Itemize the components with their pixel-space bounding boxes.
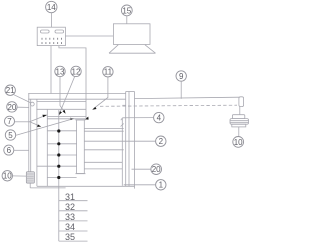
weight mid block	[230, 119, 249, 125]
svg-text:32: 32	[65, 202, 75, 212]
svg-text:14: 14	[47, 3, 56, 12]
svg-text:11: 11	[104, 68, 113, 77]
weight rib 1	[230, 120, 249, 122]
layer line 33	[47, 154, 76, 156]
svg-text:9: 9	[179, 72, 184, 81]
leader 20 right	[132, 168, 151, 170]
svg-text:2: 2	[159, 137, 164, 146]
callout circle 4	[154, 112, 164, 122]
left edge outer	[28, 94, 30, 172]
leader 21	[14, 95, 31, 103]
damper stem	[29, 183, 31, 188]
shelf right b	[84, 130, 123, 132]
svg-text:20: 20	[7, 103, 16, 112]
table row line 31	[59, 200, 88, 202]
central post	[77, 120, 85, 174]
hopper stand right leg	[145, 45, 156, 53]
leader 13	[60, 77, 65, 113]
leader 4 tick	[121, 118, 123, 120]
right post far	[134, 92, 136, 189]
wire box14 down left	[50, 46, 52, 94]
top rail line 2	[28, 98, 126, 100]
arrow 7 down	[37, 124, 41, 127]
table row line 32	[59, 210, 88, 212]
right wall tick	[121, 124, 124, 127]
callout circle 15	[121, 5, 132, 16]
boom end cap	[239, 97, 244, 107]
svg-text:20: 20	[152, 165, 161, 174]
right post outer	[125, 92, 127, 187]
leader 1	[124, 184, 156, 186]
weight hanger	[239, 107, 241, 115]
table row line 33	[59, 220, 88, 222]
leader 11	[94, 77, 108, 109]
svg-text:13: 13	[56, 67, 65, 76]
svg-text:21: 21	[6, 86, 15, 95]
hopper stand left leg	[109, 45, 118, 53]
callout circle 7	[5, 116, 15, 126]
weight stem	[238, 127, 240, 137]
table row line 34	[59, 230, 88, 232]
arrow 13	[63, 110, 66, 114]
damper box 10	[26, 172, 34, 183]
svg-text:31: 31	[65, 192, 75, 202]
marker dot 31	[57, 129, 60, 132]
rail line 3	[37, 100, 86, 102]
weight rib 2	[230, 121, 249, 123]
leader 7 branch up	[30, 116, 45, 122]
shelf left top b	[47, 118, 86, 120]
leader 7 branch down	[30, 122, 37, 125]
leader 9	[180, 81, 182, 99]
pivot bolt	[30, 102, 34, 106]
control box 14	[37, 27, 65, 45]
callout circle 9	[176, 71, 186, 81]
svg-text:12: 12	[72, 67, 81, 76]
callout circle 6	[4, 145, 14, 155]
svg-text:33: 33	[65, 212, 75, 222]
weight top block	[232, 115, 244, 119]
wire box14 down right step	[59, 46, 86, 119]
right post inner	[128, 92, 130, 187]
callout circle 20 left	[7, 102, 17, 112]
weight bottom block	[232, 124, 246, 127]
svg-text:10: 10	[234, 138, 243, 147]
wire end clamp	[85, 117, 89, 120]
svg-text:4: 4	[157, 114, 162, 123]
leader 14	[51, 13, 53, 28]
table row line 35	[59, 240, 88, 242]
callout circle 13	[55, 66, 65, 76]
marker dot 35	[57, 176, 60, 179]
leader 7	[15, 121, 30, 123]
callout circle 12	[71, 66, 81, 76]
boom arm top edge	[135, 97, 240, 98]
layer line 34	[37, 165, 77, 167]
callout circle 10 right	[233, 137, 244, 148]
callout circle 2	[156, 136, 166, 146]
left wall	[36, 99, 38, 186]
svg-text:7: 7	[7, 117, 12, 126]
svg-text:15: 15	[122, 6, 131, 15]
marker dot 33	[57, 153, 60, 156]
callout circle 11	[103, 67, 113, 77]
leader 5	[16, 119, 71, 135]
layer line 32	[47, 143, 76, 145]
layer line 31	[47, 130, 76, 132]
marker dot line	[58, 110, 60, 241]
right inner wall	[121, 118, 123, 186]
bottom line b	[30, 187, 65, 189]
callout circle 1	[156, 180, 166, 190]
wire box14 to box15	[66, 35, 114, 37]
shelf right low	[84, 149, 123, 151]
leader 4	[123, 117, 154, 119]
arrow 11	[92, 107, 96, 110]
leader 12	[60, 77, 75, 114]
arrow 5	[70, 118, 74, 120]
arrow 12	[59, 111, 62, 115]
hopper box 15	[113, 24, 150, 45]
leader 20 left	[17, 106, 29, 108]
callout circle 10 left	[2, 171, 12, 181]
chamber top line	[36, 108, 86, 110]
right post cap	[126, 91, 135, 93]
boom arm hidden edge	[100, 105, 237, 106]
band line right 2	[84, 168, 122, 170]
leader 10 left	[13, 175, 27, 177]
shelf left top a	[47, 116, 86, 118]
callout circle 20 right	[151, 164, 162, 175]
svg-text:35: 35	[65, 232, 75, 242]
callout circle 14	[46, 1, 57, 12]
boom arm stub	[122, 104, 125, 106]
bottom line a	[37, 185, 135, 187]
svg-text:5: 5	[8, 131, 13, 140]
left edge inner	[30, 99, 32, 172]
band line right	[84, 161, 122, 163]
leader 15	[126, 16, 128, 24]
svg-text:10: 10	[3, 172, 12, 181]
shelf right a	[84, 127, 123, 129]
inner left wall	[46, 110, 48, 187]
svg-text:34: 34	[65, 222, 75, 232]
svg-text:6: 6	[7, 146, 12, 155]
leader 6	[14, 149, 29, 151]
hopper stand base	[109, 52, 156, 54]
callout circle 5	[5, 130, 15, 140]
callout circle 21	[5, 85, 15, 95]
arrow 7 up	[42, 115, 47, 117]
marker dot 32	[57, 142, 60, 145]
layer line 35	[47, 177, 76, 179]
top rail line 1	[28, 93, 126, 95]
svg-text:1: 1	[159, 181, 164, 190]
marker dot 34	[57, 165, 60, 168]
leader 2	[84, 140, 155, 142]
